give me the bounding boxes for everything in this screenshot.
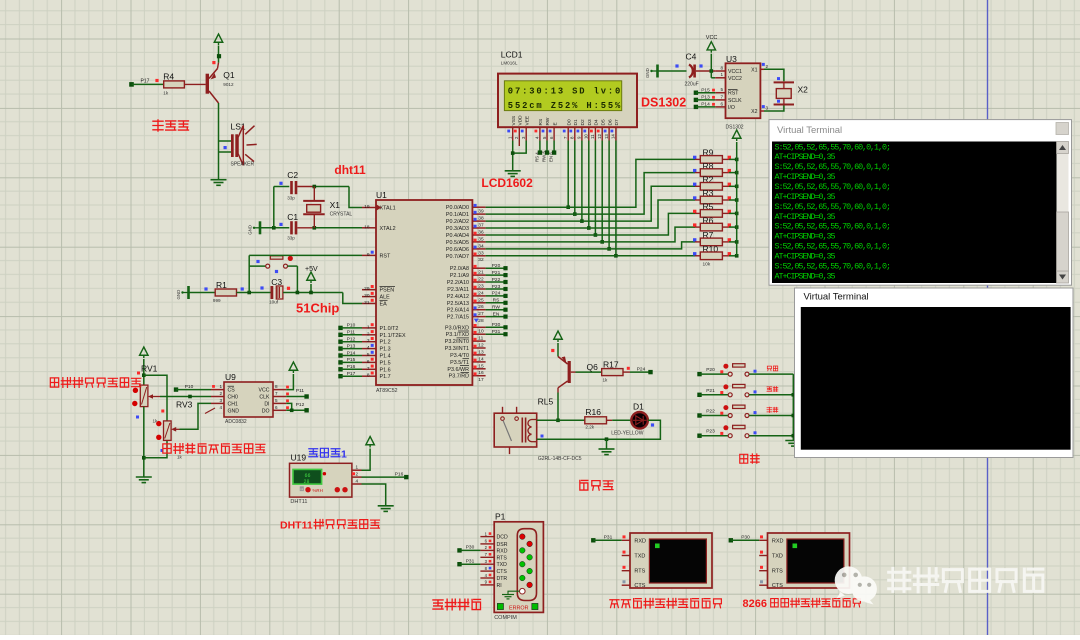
svg-text:14: 14 xyxy=(611,134,616,139)
svg-text:P24: P24 xyxy=(492,291,501,297)
svg-text:CTS: CTS xyxy=(634,583,645,589)
U1 right pins P3 xyxy=(472,326,485,328)
svg-text:P16: P16 xyxy=(395,471,404,477)
crystal X2 xyxy=(760,68,764,70)
wire RV1 wiper to CH0 xyxy=(160,396,211,398)
U9 CLK to P11 xyxy=(286,396,304,398)
wire D1 to relay bottom / ground xyxy=(537,420,661,439)
svg-text:P30: P30 xyxy=(492,322,501,328)
label: relay (hanzi) xyxy=(580,480,588,490)
svg-text:17: 17 xyxy=(478,377,484,383)
svg-text:S:52,05,52,65,55,70,60,0,1,0;: S:52,05,52,65,55,70,60,0,1,0; xyxy=(775,222,892,232)
svg-text:33p: 33p xyxy=(287,195,295,200)
svg-text:CH1: CH1 xyxy=(228,401,238,407)
svg-text:EN: EN xyxy=(493,311,500,317)
svg-text:CH0: CH0 xyxy=(228,395,238,401)
svg-text:P2.5/A13: P2.5/A13 xyxy=(447,301,469,307)
DHT11 pins xyxy=(352,469,362,471)
COMPIM pin RTS xyxy=(480,556,494,558)
ground GND (reset) xyxy=(181,291,183,293)
svg-text:D3: D3 xyxy=(587,119,593,125)
svg-text:RW: RW xyxy=(545,117,551,125)
ground GND (DS1302) xyxy=(650,70,652,72)
svg-text:P0.6/AD6: P0.6/AD6 xyxy=(446,247,469,253)
svg-text:10: 10 xyxy=(584,134,589,139)
DHT11 GND to ground xyxy=(362,484,386,506)
svg-text:P1.7: P1.7 xyxy=(380,374,391,380)
svg-text:31: 31 xyxy=(364,300,370,306)
node P17 terminal xyxy=(129,82,134,87)
COMPIM pin TXD xyxy=(480,563,494,565)
power terminal above Q1 xyxy=(214,34,223,42)
svg-text:Q6: Q6 xyxy=(587,362,599,372)
svg-text:P1.6: P1.6 xyxy=(380,367,391,373)
svg-text:TXD: TXD xyxy=(497,562,508,568)
svg-text:TXD: TXD xyxy=(634,554,645,560)
svg-text:X1: X1 xyxy=(751,67,757,73)
svg-text:GND: GND xyxy=(176,290,181,300)
svg-text:P12: P12 xyxy=(347,337,356,343)
svg-text:8: 8 xyxy=(720,65,723,70)
Q6 base wire to R17 xyxy=(571,371,576,373)
svg-text:ERROR: ERROR xyxy=(509,605,529,611)
svg-text:I/O: I/O xyxy=(728,105,735,111)
svg-text:VEE: VEE xyxy=(524,116,530,126)
svg-text:P0.4/AD4: P0.4/AD4 xyxy=(446,233,469,239)
svg-text:RL5: RL5 xyxy=(538,397,554,407)
svg-text:DHT11: DHT11 xyxy=(280,519,313,531)
svg-text:220uF: 220uF xyxy=(685,82,699,88)
wire gnd to C4 xyxy=(658,70,687,72)
svg-text:9: 9 xyxy=(367,252,370,258)
terminal 1 scrollbar xyxy=(1057,142,1069,284)
svg-text:P12: P12 xyxy=(296,402,305,408)
svg-text:P3.1/TXD: P3.1/TXD xyxy=(446,332,469,338)
svg-text:1: 1 xyxy=(356,465,359,470)
svg-text:RI: RI xyxy=(497,583,502,589)
svg-text:P1.5: P1.5 xyxy=(380,360,391,366)
svg-text:7: 7 xyxy=(275,391,278,396)
power arrow above RV1 xyxy=(140,347,149,355)
svg-text:2.2k: 2.2k xyxy=(585,424,594,429)
wire R4 to Q1 base xyxy=(184,83,205,85)
svg-text:2: 2 xyxy=(219,391,222,396)
svg-text:P2.4/A12: P2.4/A12 xyxy=(447,294,469,300)
wire C3 to +5V to EA xyxy=(283,292,343,294)
svg-text:X2: X2 xyxy=(751,109,757,115)
svg-text:P21: P21 xyxy=(706,388,715,394)
label: turbidity sensor (hanzi) xyxy=(50,378,58,387)
svg-text:P16: P16 xyxy=(347,364,356,370)
svg-text:6: 6 xyxy=(720,101,723,106)
label: buzzer (hanzi) xyxy=(153,120,163,131)
LCD VSS/VEE to ground xyxy=(512,141,514,171)
svg-text:P3.4/T0: P3.4/T0 xyxy=(450,353,469,359)
svg-text:U9: U9 xyxy=(225,372,236,382)
wire RV3 wiper to CH1 xyxy=(180,403,212,429)
svg-text:ALE: ALE xyxy=(380,295,391,301)
svg-text:D1: D1 xyxy=(573,119,579,125)
svg-text:DO: DO xyxy=(262,408,270,414)
svg-text:D6: D6 xyxy=(607,119,613,125)
svg-text:U1: U1 xyxy=(376,190,387,200)
svg-text:P3.7/RD: P3.7/RD xyxy=(449,374,469,380)
instrument serial monitor (8266 side) xyxy=(768,533,850,588)
svg-text:S:52,05,52,65,55,70,60,0,1,0;: S:52,05,52,65,55,70,60,0,1,0; xyxy=(775,242,892,252)
wire to EA pin xyxy=(343,293,362,304)
svg-text:P23: P23 xyxy=(706,429,715,435)
svg-text:P30: P30 xyxy=(466,545,475,551)
svg-text:33p: 33p xyxy=(287,236,295,241)
button K1 xyxy=(697,372,701,376)
svg-text:GND: GND xyxy=(645,68,650,78)
svg-text:DHT11: DHT11 xyxy=(290,499,307,505)
svg-text:DS1302: DS1302 xyxy=(726,124,744,130)
U1 left pins xyxy=(362,207,376,209)
svg-text:RST: RST xyxy=(380,253,391,259)
svg-text:D7: D7 xyxy=(614,119,620,125)
svg-text:CRYSTAL: CRYSTAL xyxy=(330,212,353,218)
label: virtual serial port (hanzi) xyxy=(433,600,443,609)
LCD RS/RW/E terminals xyxy=(539,141,541,152)
svg-text:P23: P23 xyxy=(492,284,501,290)
svg-text:07:30:13 SD lv:0: 07:30:13 SD lv:0 xyxy=(508,87,621,97)
svg-text:P0.7/AD7: P0.7/AD7 xyxy=(446,254,469,260)
wire C2 to XTAL1 xyxy=(297,186,314,188)
svg-text:RXD: RXD xyxy=(634,538,646,544)
svg-text:X2: X2 xyxy=(798,85,809,95)
svg-text:LCD1602: LCD1602 xyxy=(481,176,533,190)
svg-text:P11: P11 xyxy=(347,330,356,336)
COMPIM pin DSR xyxy=(480,543,494,545)
svg-text:PSEN: PSEN xyxy=(380,288,395,294)
svg-text:P0.3/AD3: P0.3/AD3 xyxy=(446,226,469,232)
svg-text:P17: P17 xyxy=(347,371,356,377)
svg-text:5: 5 xyxy=(367,352,370,358)
svg-text:999: 999 xyxy=(213,298,221,303)
DHT11 VDD to power xyxy=(362,449,371,470)
DB9 outline xyxy=(517,529,536,601)
svg-text:AT89C52: AT89C52 xyxy=(376,388,398,394)
button K2 xyxy=(697,393,701,397)
svg-text:VCC1: VCC1 xyxy=(728,69,742,75)
svg-text:AT+CIPSEND=0,35: AT+CIPSEND=0,35 xyxy=(775,271,836,281)
resistor array bus wires from P0 xyxy=(486,159,695,207)
svg-text:dht11: dht11 xyxy=(334,163,366,177)
label: water level sensor (hanzi) xyxy=(163,444,171,453)
wire RST to U1 xyxy=(249,254,362,256)
svg-text:4: 4 xyxy=(219,405,222,410)
LCD data wires D0-D7 to P0 bus xyxy=(567,141,569,208)
U1 left P1 wires with net labels xyxy=(338,326,342,330)
svg-text:S:52,05,52,65,55,70,60,0,1,0;: S:52,05,52,65,55,70,60,0,1,0; xyxy=(775,162,892,172)
svg-text:C2: C2 xyxy=(287,170,298,180)
svg-text:P22: P22 xyxy=(492,277,501,283)
svg-text:S:52,05,52,65,55,70,60,0,1,0;: S:52,05,52,65,55,70,60,0,1,0; xyxy=(775,261,892,271)
svg-text:P15: P15 xyxy=(701,87,710,93)
svg-text:CTS: CTS xyxy=(772,583,783,589)
svg-text:VSS: VSS xyxy=(511,116,517,126)
nodes P30 P31 to COMPIM xyxy=(457,548,461,552)
svg-text:4: 4 xyxy=(367,345,370,351)
svg-text:%RH: %RH xyxy=(313,488,323,493)
svg-text:2: 2 xyxy=(356,472,359,477)
svg-text:AT+CIPSEND=0,35: AT+CIPSEND=0,35 xyxy=(775,212,836,222)
svg-text:19: 19 xyxy=(364,204,370,210)
svg-text:RS: RS xyxy=(538,119,544,126)
svg-text:ADC0832: ADC0832 xyxy=(225,419,247,425)
svg-text:P2.1/A9: P2.1/A9 xyxy=(450,273,469,279)
svg-text:P1.0/T2: P1.0/T2 xyxy=(380,326,399,332)
svg-text:CTS: CTS xyxy=(497,569,508,575)
wire gnd to R1 xyxy=(189,292,216,294)
wire C2 branch vertical xyxy=(273,187,275,228)
svg-text:LCD1: LCD1 xyxy=(501,50,523,60)
svg-text:P3.6/WR: P3.6/WR xyxy=(447,367,469,373)
svg-text:P30: P30 xyxy=(741,535,750,541)
svg-text:8266: 8266 xyxy=(743,598,767,610)
U1 right pins P2 with net labels xyxy=(472,267,485,269)
COMPIM pin RI xyxy=(480,584,494,586)
svg-text:S:52,05,52,65,55,70,60,0,1,0;: S:52,05,52,65,55,70,60,0,1,0; xyxy=(775,202,892,212)
svg-text:RTS: RTS xyxy=(497,555,508,561)
svg-text:6: 6 xyxy=(367,359,370,365)
svg-text:P13: P13 xyxy=(701,95,710,101)
svg-text:D4: D4 xyxy=(594,119,600,125)
button bus to ground xyxy=(792,374,794,440)
COMPIM pin CTS xyxy=(480,570,494,572)
svg-text:RTS: RTS xyxy=(634,569,645,575)
svg-text:DS1302: DS1302 xyxy=(641,96,686,110)
svg-text:D2: D2 xyxy=(580,119,586,125)
svg-text:GND: GND xyxy=(228,408,240,414)
svg-text:10uf: 10uf xyxy=(269,300,279,305)
svg-text:R4: R4 xyxy=(163,71,174,81)
button K4 xyxy=(697,434,701,438)
svg-text:30: 30 xyxy=(364,293,370,299)
svg-text:3: 3 xyxy=(367,338,370,344)
svg-text:8: 8 xyxy=(275,384,278,389)
svg-text:29: 29 xyxy=(364,286,370,292)
svg-text:AT+CIPSEND=0,35: AT+CIPSEND=0,35 xyxy=(775,172,836,182)
window Virtual Terminal 2 xyxy=(795,288,1074,458)
watermark text xyxy=(889,568,1043,592)
MCU U1 AT89C52 xyxy=(376,200,472,385)
svg-text:P14: P14 xyxy=(701,102,710,108)
COMPIM pin DCD xyxy=(480,536,494,538)
svg-text:RW 5: RW 5 xyxy=(542,151,547,162)
svg-text:P3.5/T1: P3.5/T1 xyxy=(450,360,469,366)
svg-text:R16: R16 xyxy=(585,407,601,417)
svg-text:P11: P11 xyxy=(296,388,305,394)
svg-text:P31: P31 xyxy=(492,329,501,335)
relay RL5 xyxy=(494,413,537,447)
svg-text:3: 3 xyxy=(766,106,769,111)
svg-text:7: 7 xyxy=(367,366,370,372)
svg-text:8: 8 xyxy=(367,373,370,379)
svg-text:DTR: DTR xyxy=(497,576,508,582)
label: MCU-side data monitor (hanzi) xyxy=(610,600,619,608)
svg-text:XTAL2: XTAL2 xyxy=(380,226,396,232)
svg-text:AT+CIPSEND=0,35: AT+CIPSEND=0,35 xyxy=(775,192,836,202)
svg-text:P0.5/AD5: P0.5/AD5 xyxy=(446,240,469,246)
svg-text:552cm Z52% H:55%: 552cm Z52% H:55% xyxy=(508,101,621,111)
svg-text:P10: P10 xyxy=(347,323,356,329)
svg-text:X1: X1 xyxy=(330,200,341,210)
svg-text:1: 1 xyxy=(341,448,347,460)
svg-text:RST: RST xyxy=(728,91,739,97)
svg-text:COMPIM: COMPIM xyxy=(494,615,517,621)
svg-text:RS 4: RS 4 xyxy=(534,152,539,162)
svg-text:RXD: RXD xyxy=(772,538,784,544)
svg-text:12: 12 xyxy=(597,134,602,139)
svg-text:P3.3/INT1: P3.3/INT1 xyxy=(445,346,469,352)
svg-text:EA: EA xyxy=(380,302,388,308)
Q6 emitter down to relay coil junction xyxy=(557,393,559,421)
svg-text:32: 32 xyxy=(478,257,484,263)
resistor bus to power xyxy=(736,142,738,256)
svg-text:SCLK: SCLK xyxy=(728,98,742,104)
svg-text:P2.7/A15: P2.7/A15 xyxy=(447,315,469,321)
svg-text:AT+CIPSEND=0,35: AT+CIPSEND=0,35 xyxy=(775,232,836,242)
svg-text:4: 4 xyxy=(356,478,359,483)
svg-text:P0.2/AD2: P0.2/AD2 xyxy=(446,219,469,225)
svg-text:P0.0/AD0: P0.0/AD0 xyxy=(446,205,469,211)
watermark wechat logo xyxy=(835,566,877,604)
LCD screen xyxy=(504,81,621,111)
svg-text:P20: P20 xyxy=(492,263,501,269)
svg-text:P1.4: P1.4 xyxy=(380,354,391,360)
svg-text:AT+CIPSEND=0,35: AT+CIPSEND=0,35 xyxy=(775,252,836,262)
svg-text:1: 1 xyxy=(219,384,222,389)
svg-text:1k: 1k xyxy=(177,455,183,460)
svg-text:P14: P14 xyxy=(347,350,356,356)
svg-text:C1: C1 xyxy=(287,212,298,222)
svg-text:AT+CIPSEND=0,35: AT+CIPSEND=0,35 xyxy=(775,152,836,162)
svg-text:D1: D1 xyxy=(633,402,644,412)
svg-text:1: 1 xyxy=(720,72,723,77)
svg-text:CLK: CLK xyxy=(259,395,270,401)
reset button xyxy=(248,255,250,292)
RV1 bottom to ground xyxy=(143,407,145,477)
svg-text:P2.0/A8: P2.0/A8 xyxy=(450,266,469,272)
wires P15 P13 P14 to U3 xyxy=(694,91,698,95)
svg-text:Virtual Terminal: Virtual Terminal xyxy=(804,292,869,303)
transistor Q6 xyxy=(568,361,571,383)
svg-text:P1.2: P1.2 xyxy=(380,340,391,346)
svg-text:2: 2 xyxy=(766,64,769,69)
svg-text:P1: P1 xyxy=(495,512,506,522)
svg-text:28: 28 xyxy=(478,318,484,324)
svg-text:EN 6: EN 6 xyxy=(549,152,554,162)
crystal X1 xyxy=(313,187,315,201)
svg-text:11: 11 xyxy=(590,134,595,139)
COMPIM error squares xyxy=(497,603,503,609)
svg-text:P24: P24 xyxy=(637,366,646,372)
svg-text:C4: C4 xyxy=(686,52,697,62)
svg-text:DCD: DCD xyxy=(497,535,508,541)
svg-text:P22: P22 xyxy=(706,409,715,415)
relay coil wires xyxy=(537,419,558,421)
svg-text:13: 13 xyxy=(604,134,609,139)
svg-text:G2RL-14B-CF-DC5: G2RL-14B-CF-DC5 xyxy=(538,456,582,462)
svg-text:S:52,05,52,65,55,70,60,0,1,0;: S:52,05,52,65,55,70,60,0,1,0; xyxy=(775,182,892,192)
svg-text:CS: CS xyxy=(228,388,236,394)
svg-text:6: 6 xyxy=(275,405,278,410)
svg-text:VCC2: VCC2 xyxy=(728,76,742,82)
svg-text:D0: D0 xyxy=(566,119,572,125)
svg-text:DI: DI xyxy=(264,401,269,407)
svg-text:10k: 10k xyxy=(703,262,711,268)
svg-text:P31: P31 xyxy=(466,558,475,564)
svg-text:P3.0/RXD: P3.0/RXD xyxy=(445,325,469,331)
svg-text:1: 1 xyxy=(367,324,370,330)
svg-text:7: 7 xyxy=(720,94,723,99)
svg-text:P2.3/A11: P2.3/A11 xyxy=(447,287,469,293)
COMPIM internal ground xyxy=(508,591,520,594)
wire Q1 collector to speaker xyxy=(218,103,220,141)
svg-text:RW: RW xyxy=(492,305,500,311)
branch to RV3 xyxy=(144,375,167,421)
wire C1 to XTAL2 xyxy=(297,227,314,229)
svg-text:P0.1/AD1: P0.1/AD1 xyxy=(446,212,469,218)
wire R1 to C3 xyxy=(237,292,271,294)
svg-text:P31: P31 xyxy=(604,535,613,541)
sheet border (blue) xyxy=(987,0,989,635)
U9 wires: P10 to CS xyxy=(174,387,178,391)
svg-text:2: 2 xyxy=(367,331,370,337)
svg-text:18: 18 xyxy=(364,224,370,230)
svg-text:P17: P17 xyxy=(141,78,150,84)
instrument serial monitor (MCU side) xyxy=(630,533,712,588)
svg-text:51Chip: 51Chip xyxy=(296,301,339,316)
DHT11 DATA to P16 xyxy=(362,476,405,478)
svg-text:XTAL1: XTAL1 xyxy=(380,206,396,212)
svg-text:DSR: DSR xyxy=(497,542,508,548)
ground GND (crystal) xyxy=(253,227,255,229)
svg-text:P15: P15 xyxy=(347,357,356,363)
wire C4 to U3 VCC xyxy=(696,70,715,72)
svg-text:P1.1/T2EX: P1.1/T2EX xyxy=(380,333,406,339)
svg-text:Virtual Terminal: Virtual Terminal xyxy=(777,125,842,136)
svg-text:5: 5 xyxy=(275,398,278,403)
svg-text:P13: P13 xyxy=(347,343,356,349)
svg-text:VCC: VCC xyxy=(706,35,718,41)
svg-text:P1.3: P1.3 xyxy=(380,347,391,353)
svg-text:5: 5 xyxy=(720,87,723,92)
U1 right pins P0 xyxy=(472,206,485,208)
svg-text:3: 3 xyxy=(219,398,222,403)
ground below speaker xyxy=(211,179,227,181)
label: keys (hanzi) xyxy=(740,454,748,463)
svg-text:GND: GND xyxy=(248,225,253,235)
svg-text:LED-YELLOW: LED-YELLOW xyxy=(611,431,644,437)
svg-text:RV1: RV1 xyxy=(141,364,158,374)
svg-text:9012: 9012 xyxy=(223,82,234,87)
U9 DI/DO tie to P12 xyxy=(286,403,292,410)
svg-text:P2.2/A10: P2.2/A10 xyxy=(447,280,469,286)
wire gnd to C1 xyxy=(260,227,289,229)
button K3 xyxy=(697,413,701,417)
svg-text:1k: 1k xyxy=(603,378,609,383)
svg-text:LM016L: LM016L xyxy=(501,61,518,66)
svg-text:VDD: VDD xyxy=(518,115,524,126)
svg-text:P3.2/INT0: P3.2/INT0 xyxy=(445,339,469,345)
svg-text:28: 28 xyxy=(303,479,309,485)
svg-text:P20: P20 xyxy=(706,367,715,373)
svg-text:S:52,05,52,65,55,70,60,0,1,0;: S:52,05,52,65,55,70,60,0,1,0; xyxy=(775,142,892,152)
svg-text:RXD: RXD xyxy=(497,548,508,554)
